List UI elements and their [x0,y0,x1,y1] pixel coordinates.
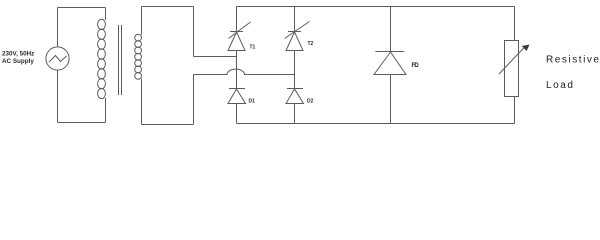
wire: load top lead [514,7,516,41]
svg-text:D2: D2 [307,99,314,105]
wire: primary left lower [57,70,59,122]
svg-text:FD: FD [412,63,420,69]
svg-text:T2: T2 [308,41,314,47]
label Resistive Load [546,55,600,91]
svg-text:Resistive: Resistive [546,55,600,66]
wire: secondary bottom rail [142,124,194,126]
svg-text:T1: T1 [250,45,256,51]
transformer TR1 core [119,25,122,95]
wire: bridge positive top rail [237,6,515,8]
wire: load bottom lead [514,97,516,124]
svg-text:AC Supply: AC Supply [2,58,34,65]
diode D2 [286,89,304,124]
diode D1 [228,89,246,124]
wire: primary loop bottom rail [58,122,106,124]
wire: secondary lower tap rise [193,75,195,125]
wire: secondary top rail [142,6,194,8]
wire: bridge negative bottom rail [237,123,515,125]
svg-text:Load: Load [546,80,574,91]
AC source V1 [46,47,69,70]
thyristor T2 [285,7,310,89]
resistive load RL [499,41,530,97]
svg-text:230V, 50Hz: 230V, 50Hz [2,51,34,58]
AC source V1 label [2,51,34,65]
svg-text:D1: D1 [249,99,256,105]
wire: primary loop top rail [58,7,106,9]
wire: lower tap with crossover hump to T2-D2 junction [194,69,295,74]
wire: upper tap to T1-D1 junction [194,56,237,58]
wire: secondary upper tap drop [193,7,195,57]
thyristor T1 [228,7,251,89]
freewheeling diode FD [374,7,406,124]
transformer TR1 secondary winding [135,7,142,125]
transformer TR1 primary winding [98,8,106,123]
wire: primary left upper [57,8,59,48]
